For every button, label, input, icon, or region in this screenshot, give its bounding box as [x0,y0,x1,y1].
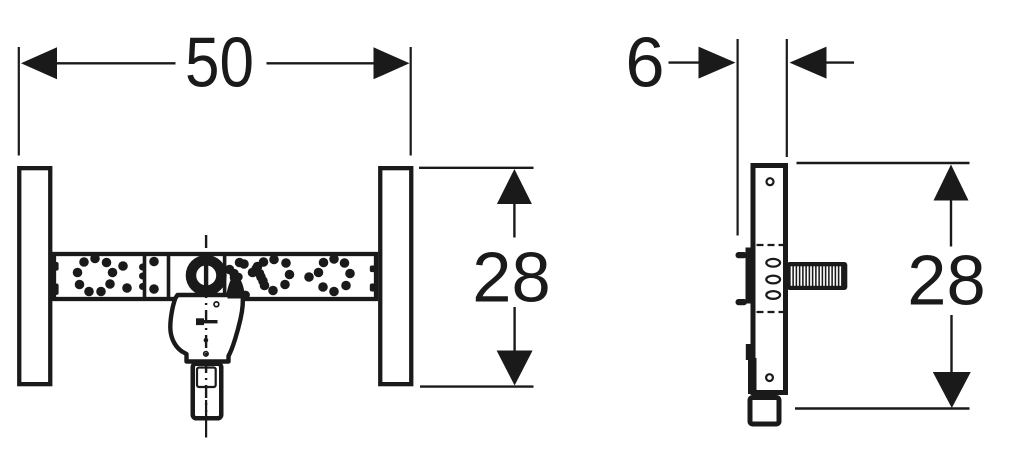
dim 50 ext line left [18,47,20,156]
side plate top hole [767,178,774,185]
side plate dashed joint lower [757,311,784,313]
dim 28 right line lower [950,315,952,373]
dim 28 right bottom line [795,407,970,409]
crossbar divider 3 [223,254,227,299]
right hole pattern [230,254,355,296]
wall bracket tab top [736,252,748,258]
dim 28 right top line [797,162,970,164]
wall bracket bar [746,248,752,304]
dim 6 ext line left [736,39,738,236]
clamp handle [196,318,218,325]
right rail [380,168,411,384]
dim 50 ext line right [410,47,412,156]
dim 50 line left [55,62,176,64]
crossbar divider 2 [167,254,171,299]
centerline thick segment [204,257,208,294]
svg-text:28: 28 [907,241,985,320]
trap outlet pipe [193,364,222,419]
divider bumps [139,264,146,291]
side plate bottom hole [766,374,773,381]
plate lower-left reinforcement [748,358,757,394]
dim 28 right up arrow [934,165,969,201]
dot on centerline [204,338,209,343]
dim 6 arrow right [790,47,827,79]
svg-text:28: 28 [472,238,550,317]
small hole on trap [214,302,219,307]
side plate [753,166,786,393]
left rail [19,168,50,384]
outlet sleeve [197,368,216,388]
left hole ring [73,254,132,297]
wall bracket tab bottom [736,299,748,305]
svg-text:50: 50 [185,23,254,102]
side slot 3 [766,291,780,299]
dim 28 left up arrow [497,169,532,204]
dim 28 right down arrow [933,372,971,408]
side slot 1 [766,259,780,267]
crossbar divider 1 [143,254,147,299]
dim 28 left top line [419,167,534,169]
dim 28 left line lower [513,307,515,351]
dim 28 right line upper [950,201,952,247]
ring-trap junction dots [225,265,250,300]
dim 28 left down arrow [497,351,533,386]
dim 6 line left [669,61,700,63]
slider bracket holes [149,257,159,294]
dim 28 left line upper [513,204,515,238]
trap body [170,277,243,362]
svg-text:6: 6 [625,23,664,102]
dim 50 arrow right [374,47,410,79]
dim 6 ext line right [786,39,788,157]
dim 50 arrow left [21,47,57,79]
small circle on centerline [204,352,208,356]
foot [750,398,779,425]
dim 6 line right [826,61,854,63]
side slot 2 [766,276,780,284]
dim 50 line right [267,62,375,64]
dim 28 left bottom line [420,385,534,387]
crossbar right end tabs [370,266,377,292]
side plate dashed joint upper [757,244,784,246]
drain ring [186,255,227,296]
crossbar body [54,254,376,299]
threaded rod [787,262,848,290]
centerline [205,235,207,412]
plate left notch [746,344,752,360]
dim 6 arrow left [699,47,736,79]
ring-trap junction wedge [228,277,243,299]
crossbar left end tabs [52,262,59,295]
